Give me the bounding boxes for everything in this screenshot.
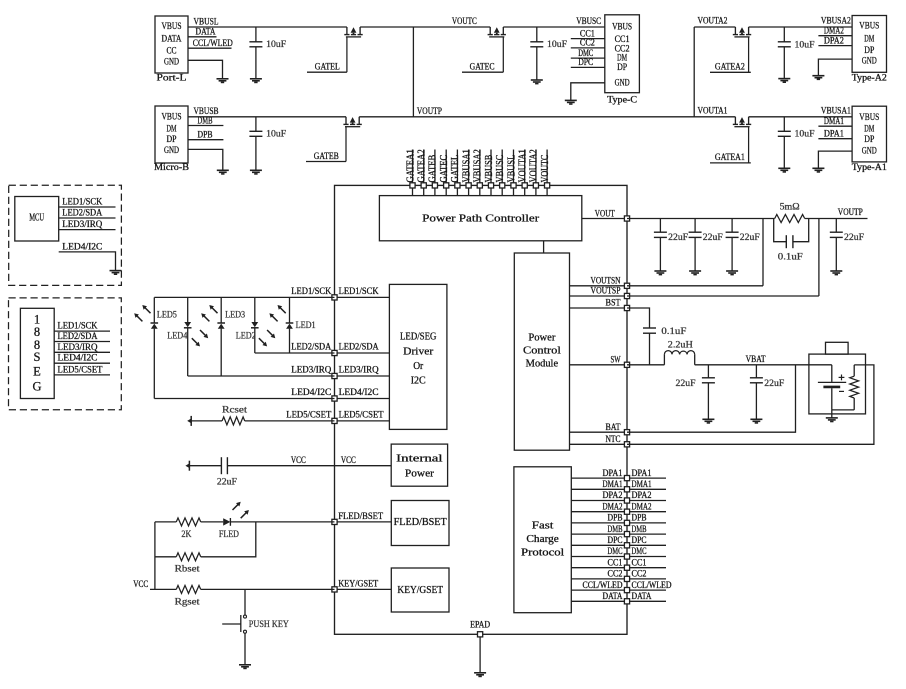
pin LED1/SCK <box>335 296 390 298</box>
net stub GATEC <box>462 71 503 73</box>
pin DATA <box>571 600 627 602</box>
svg-text:0.1uF: 0.1uF <box>778 252 803 262</box>
net stub DPC <box>571 66 605 68</box>
pin stub VBUSA1 <box>468 150 470 186</box>
svg-text:VBUSC: VBUSC <box>495 155 506 183</box>
wire NTC <box>627 365 874 444</box>
wire LED3/IRQ row <box>188 375 335 377</box>
pin DPB <box>571 522 627 524</box>
svg-text:Charge: Charge <box>526 534 559 545</box>
LED D5 LED5 <box>153 297 155 323</box>
ground Micro-B <box>217 169 229 171</box>
transistor Q3 GATEC PMOS <box>489 27 491 35</box>
ground C12 <box>702 418 714 420</box>
wire VBUSA1 <box>749 116 853 118</box>
svg-text:BAT: BAT <box>606 423 621 433</box>
capacitor C13 22uF <box>755 365 757 378</box>
pin LED3/IRQ <box>335 375 390 377</box>
pin DMA2 <box>571 511 627 513</box>
svg-text:LED2/SDA: LED2/SDA <box>62 209 102 219</box>
net stub DMC <box>571 57 605 59</box>
svg-text:VOUTSP: VOUTSP <box>591 287 621 297</box>
svg-text:DMB: DMB <box>632 525 647 535</box>
svg-text:VBUS: VBUS <box>612 22 632 32</box>
svg-text:GND: GND <box>615 78 630 88</box>
svg-text:VOUTC: VOUTC <box>540 155 551 183</box>
net stub CC2 <box>630 578 666 580</box>
svg-text:CC1: CC1 <box>632 558 647 568</box>
pin CC2 <box>571 578 627 580</box>
svg-text:DP: DP <box>864 46 874 56</box>
svg-text:VOUT: VOUT <box>595 209 615 219</box>
svg-text:DPA1: DPA1 <box>603 469 623 479</box>
block Power Path Controller <box>379 196 581 241</box>
svg-text:GATEL: GATEL <box>315 63 340 73</box>
block 1888SEG display <box>20 308 54 398</box>
resistor Rgset <box>150 588 176 590</box>
svg-text:VOUTSN: VOUTSN <box>591 276 621 286</box>
connector J3 Type-C <box>605 15 640 93</box>
battery pack outline <box>809 354 866 414</box>
wire Type-C GND <box>571 83 605 101</box>
svg-text:LED1/SCK: LED1/SCK <box>291 287 331 297</box>
capacitor C5 10uF <box>783 117 785 132</box>
svg-text:VBUS: VBUS <box>162 22 182 32</box>
svg-text:DMB: DMB <box>608 525 623 535</box>
svg-text:DM: DM <box>167 125 177 135</box>
MCU application dashed box <box>9 185 122 285</box>
capacitor C8 22uF <box>731 219 733 233</box>
svg-text:CCL/WLED: CCL/WLED <box>193 39 233 49</box>
pin stub GATEC <box>445 150 447 186</box>
svg-text:2K: 2K <box>181 530 191 540</box>
wire LED4/I2C row <box>154 398 334 400</box>
pin DMA1 <box>571 488 627 490</box>
pin VOUTSP <box>570 295 628 297</box>
svg-text:Rgset: Rgset <box>175 598 200 608</box>
connector J1 Port-L <box>155 16 188 73</box>
svg-text:DP: DP <box>864 135 874 145</box>
wire Port-L VBUS to Q1 <box>188 26 347 28</box>
svg-text:DMA1: DMA1 <box>632 480 652 490</box>
svg-text:Type-A1: Type-A1 <box>852 163 887 173</box>
svg-text:DPC: DPC <box>578 58 593 68</box>
pin FLED/BSET <box>335 521 392 523</box>
svg-text:CC1: CC1 <box>608 558 623 568</box>
capacitor C1 10uF <box>255 27 257 42</box>
svg-text:22uF: 22uF <box>217 478 237 488</box>
svg-text:LED1: LED1 <box>296 321 316 331</box>
ground C1 <box>250 78 262 80</box>
capacitor C9 0.1uF bypass <box>774 219 787 242</box>
svg-text:CCL/WLED: CCL/WLED <box>583 581 623 591</box>
svg-text:2.2uH: 2.2uH <box>668 341 693 351</box>
pin KEY/GSET <box>335 588 392 590</box>
svg-text:NTC: NTC <box>606 435 621 445</box>
net stub DATA <box>188 36 217 38</box>
svg-text:VBAT: VBAT <box>746 355 766 365</box>
svg-text:DPA1: DPA1 <box>824 130 844 140</box>
svg-text:DMA1: DMA1 <box>603 480 623 490</box>
wire VOUTA2 riser <box>693 27 695 117</box>
block MCU <box>15 197 59 242</box>
svg-text:LED3: LED3 <box>225 311 245 321</box>
svg-text:LED4: LED4 <box>167 332 187 342</box>
wire VBAT rail <box>695 364 832 366</box>
svg-text:Rbset: Rbset <box>175 565 200 575</box>
capacitor C2 10uF <box>255 117 257 132</box>
svg-text:GATEL: GATEL <box>450 155 461 183</box>
svg-text:VBUS: VBUS <box>162 113 182 123</box>
svg-text:10uF: 10uF <box>266 40 286 50</box>
net stub DMA1 <box>630 488 666 490</box>
svg-text:DPC: DPC <box>632 536 647 546</box>
svg-text:GATEC: GATEC <box>439 155 450 183</box>
svg-text:VCC: VCC <box>291 456 306 466</box>
ground C10 <box>830 270 842 272</box>
wire VBUSC <box>503 26 605 28</box>
wire LED top rail <box>154 296 334 298</box>
svg-text:DP: DP <box>617 63 627 73</box>
wire BAT <box>627 365 796 432</box>
thermistor RT1 NTC <box>853 365 855 376</box>
LED D5 arrows <box>144 307 151 314</box>
svg-text:Or: Or <box>413 361 424 372</box>
svg-text:10uF: 10uF <box>266 130 286 140</box>
IC U1 main controller outline <box>335 185 628 634</box>
ground C8 <box>726 270 738 272</box>
terminal Rcset left <box>190 416 192 426</box>
svg-text:VBUSC: VBUSC <box>576 17 601 27</box>
svg-text:LED/SEG: LED/SEG <box>400 331 437 342</box>
svg-text:MCU: MCU <box>29 213 45 224</box>
wire LED2/SDA row <box>255 352 335 354</box>
svg-text:Power Path Controller: Power Path Controller <box>422 214 540 225</box>
wire VOUTSN sense <box>627 285 763 287</box>
wire battery bottom <box>832 409 854 411</box>
svg-text:VBUSA1: VBUSA1 <box>821 106 851 116</box>
svg-text:FLED/BSET: FLED/BSET <box>394 517 448 528</box>
ground Type-A2 <box>812 75 824 77</box>
ground C2 <box>250 169 262 171</box>
block LED/SEG Driver Or I2C <box>389 284 447 429</box>
svg-text:DPB: DPB <box>198 131 213 141</box>
net stub DMC <box>630 556 666 558</box>
svg-text:DPB: DPB <box>632 514 647 524</box>
svg-text:VBUS: VBUS <box>859 22 879 32</box>
svg-text:LED1/SCK: LED1/SCK <box>339 287 379 297</box>
svg-text:VBUSA2: VBUSA2 <box>473 149 484 182</box>
svg-text:GND: GND <box>862 56 877 66</box>
pin LED2/SDA <box>335 352 390 354</box>
net stub DPA1 <box>630 477 666 479</box>
wire Micro-B GND <box>188 149 223 170</box>
svg-text:GATEC: GATEC <box>470 63 495 73</box>
svg-text:VCC: VCC <box>341 456 356 466</box>
switch SW1 PUSH KEY <box>244 589 246 615</box>
net stub SEG LED3/IRQ <box>54 351 110 353</box>
svg-text:DM: DM <box>864 35 874 45</box>
svg-text:22uF: 22uF <box>740 233 760 243</box>
svg-text:GATEA2: GATEA2 <box>715 63 745 73</box>
svg-text:Fast: Fast <box>532 521 554 532</box>
svg-text:CC2: CC2 <box>632 570 647 580</box>
net stub GATEL <box>307 71 347 73</box>
svg-text:VBUSL: VBUSL <box>194 17 219 27</box>
pin stub VBUSB <box>490 150 492 186</box>
svg-text:VBUS: VBUS <box>859 113 879 123</box>
pin stub VBUSC <box>501 150 503 186</box>
svg-text:DMB: DMB <box>198 116 213 126</box>
transistor Q1 GATEL PMOS <box>346 27 348 35</box>
net stub CCL/WLED <box>188 47 232 49</box>
svg-text:22uF: 22uF <box>668 233 688 243</box>
net stub DMB <box>630 533 666 535</box>
svg-text:EPAD: EPAD <box>470 621 490 631</box>
LED D2 LED2 <box>254 297 256 322</box>
svg-text:10uF: 10uF <box>795 130 815 140</box>
svg-text:DATA: DATA <box>162 35 182 45</box>
transistor Q5 GATEA1 PMOS <box>734 117 736 125</box>
LED D2 arrows <box>267 330 274 337</box>
net stub DPA2 <box>630 500 666 502</box>
capacitor C6 22uF <box>659 219 661 233</box>
svg-text:LED5/CSET: LED5/CSET <box>58 365 103 375</box>
svg-text:5mΩ: 5mΩ <box>780 202 800 212</box>
svg-text:KEY/GSET: KEY/GSET <box>397 585 443 596</box>
svg-text:FLED/BSET: FLED/BSET <box>338 512 383 522</box>
svg-text:LED3/IRQ: LED3/IRQ <box>291 366 331 376</box>
wire VOUT rail <box>627 218 775 220</box>
net stub SEG LED4/I2C <box>54 362 110 364</box>
svg-text:Module: Module <box>526 359 559 370</box>
block FLED/BSET <box>391 501 449 546</box>
svg-text:LED2/SDA: LED2/SDA <box>58 332 98 342</box>
svg-text:DMA1: DMA1 <box>824 117 844 127</box>
svg-text:Power: Power <box>405 468 435 479</box>
svg-text:GATEB: GATEB <box>314 152 339 162</box>
battery BT1 <box>831 365 833 382</box>
capacitor C7 22uF <box>694 219 696 233</box>
pin BST <box>570 307 628 309</box>
ground EPAD <box>474 672 486 674</box>
net stub DMB <box>188 125 223 127</box>
svg-text:LED3/IRQ: LED3/IRQ <box>339 366 379 376</box>
ground C6 <box>654 270 666 272</box>
svg-text:DATA: DATA <box>632 592 652 602</box>
ground C5 <box>778 167 790 169</box>
svg-text:DPA2: DPA2 <box>603 491 623 501</box>
pin stub GATEL <box>456 150 458 186</box>
net stub MCU LED1/SCK <box>59 206 116 208</box>
svg-text:GND: GND <box>862 146 877 156</box>
LED FLED arrows <box>233 503 240 510</box>
svg-text:22uF: 22uF <box>676 379 696 389</box>
terminal VCC left <box>188 461 190 471</box>
pin stub VOUTA2 <box>535 150 537 186</box>
svg-text:LED2/SDA: LED2/SDA <box>339 343 379 353</box>
capacitor C10 22uF <box>835 219 837 233</box>
LED D3 arrows <box>211 307 218 314</box>
wire VOUTSP sense <box>627 295 819 297</box>
svg-text:Rcset: Rcset <box>222 406 247 416</box>
svg-text:LED4/I2C: LED4/I2C <box>58 354 98 364</box>
pin BAT <box>570 431 628 433</box>
LED D4 LED4 <box>187 297 189 322</box>
wire junction VOUTC to VOUTP <box>412 27 414 117</box>
net stub GATEB <box>306 161 346 163</box>
svg-text:LED4/I2C: LED4/I2C <box>339 388 379 398</box>
capacitor C3 10uF <box>536 27 538 42</box>
svg-text:DPA2: DPA2 <box>824 36 844 46</box>
battery connector tab <box>826 342 849 354</box>
svg-text:10uF: 10uF <box>795 40 815 50</box>
svg-text:DMC: DMC <box>632 547 647 557</box>
svg-text:DMA2: DMA2 <box>632 502 652 512</box>
capacitor C12 22uF <box>707 365 709 378</box>
svg-text:VOUTA1: VOUTA1 <box>518 149 529 182</box>
resistor R1 5mOhm <box>775 215 805 223</box>
pin DPC <box>571 544 627 546</box>
net stub DPA1 <box>818 138 852 140</box>
svg-text:VOUTA1: VOUTA1 <box>698 107 728 117</box>
wire Micro-B VBUS to Q2 <box>188 116 346 118</box>
net stub SEG LED5/CSET <box>54 374 110 376</box>
svg-text:GATEA1: GATEA1 <box>715 153 745 163</box>
svg-text:GATEA2: GATEA2 <box>417 149 428 182</box>
net stub MCU LED2/SDA <box>59 217 116 219</box>
svg-text:DPA2: DPA2 <box>632 491 652 501</box>
svg-text:DM: DM <box>864 125 874 135</box>
block Fast Charge Protocol <box>514 467 571 613</box>
ground Type-C <box>565 99 577 101</box>
pin VOUT <box>582 218 627 220</box>
ground C13 <box>750 418 762 420</box>
pin VCC <box>335 465 392 467</box>
svg-text:VBUSA2: VBUSA2 <box>821 17 851 27</box>
svg-text:DMC: DMC <box>608 547 623 557</box>
ground Port-L <box>217 78 229 80</box>
svg-text:LED1/SCK: LED1/SCK <box>58 322 98 332</box>
net stub SEG LED1/SCK <box>54 330 110 332</box>
svg-text:GND: GND <box>164 146 179 156</box>
svg-text:22uF: 22uF <box>844 233 864 243</box>
pin stub VBUSL <box>513 150 515 186</box>
svg-text:E: E <box>33 365 41 379</box>
wire EPAD to ground <box>479 637 481 673</box>
resistor R2 2K <box>155 521 176 523</box>
svg-text:KEY/GSET: KEY/GSET <box>338 580 378 590</box>
svg-text:LED4/I2C: LED4/I2C <box>291 388 331 398</box>
svg-text:FLED: FLED <box>219 530 239 540</box>
capacitor C4 10uF <box>783 27 785 42</box>
svg-text:PUSH KEY: PUSH KEY <box>249 620 289 630</box>
wire VOUTP out <box>805 218 868 220</box>
svg-text:G: G <box>32 379 41 393</box>
net stub DATA <box>630 600 666 602</box>
svg-text:Micro-B: Micro-B <box>154 163 189 173</box>
net stub CC1 <box>630 567 666 569</box>
net stub DMA1 <box>818 125 852 127</box>
wire Port-L GND <box>188 60 223 79</box>
ground push key <box>239 664 251 666</box>
LED display dashed box <box>9 298 122 410</box>
net stub CC2 <box>571 47 605 49</box>
pin stub GATEA1 <box>412 150 414 186</box>
svg-text:CC2: CC2 <box>580 39 595 49</box>
svg-text:VOUTA2: VOUTA2 <box>698 17 728 27</box>
svg-text:VBUSA1: VBUSA1 <box>461 149 472 182</box>
svg-text:Protocol: Protocol <box>521 548 564 559</box>
svg-text:GATEA1: GATEA1 <box>405 149 416 182</box>
net stub GATEA2 <box>710 71 751 73</box>
svg-text:LED5: LED5 <box>157 311 177 321</box>
net stub MCU LED3/IRQ <box>59 229 116 231</box>
connector J5 Type-A1 <box>852 106 886 162</box>
inductor L1 2.2uH <box>663 354 665 364</box>
net stub DPB <box>188 139 223 141</box>
net stub DMA2 <box>630 511 666 513</box>
net stub DMA2 <box>818 35 852 37</box>
pin stub GATEB <box>434 150 436 186</box>
LED D4 arrows <box>200 330 207 337</box>
svg-text:VOUTP: VOUTP <box>838 208 863 218</box>
pin LED4/I2C <box>335 398 390 400</box>
resistor Rbset <box>155 556 176 558</box>
connector J4 Type-A2 <box>852 16 886 73</box>
capacitor C14 22uF VCC <box>189 465 221 467</box>
net stub CC1 <box>571 38 605 40</box>
svg-text:LED3/IRQ: LED3/IRQ <box>62 220 102 230</box>
net stub GATEA1 <box>710 162 751 164</box>
pin DMB <box>571 533 627 535</box>
LED FLED <box>201 521 224 523</box>
ground battery <box>826 417 838 419</box>
svg-text:Port-L: Port-L <box>157 74 187 84</box>
wire VOUTC rail <box>360 26 490 28</box>
block Internal Power <box>391 444 447 486</box>
svg-text:CC: CC <box>167 46 177 56</box>
resistor Rcset <box>191 420 222 422</box>
pin CCL/WLED <box>571 589 627 591</box>
svg-text:0.1uF: 0.1uF <box>661 327 686 337</box>
svg-text:Type-C: Type-C <box>607 96 637 106</box>
wire Type-A1 GND <box>818 151 852 168</box>
svg-text:Control: Control <box>523 346 561 357</box>
wire BST <box>627 308 650 328</box>
pin stub VOUTA1 <box>524 150 526 186</box>
pin LED5/CSET <box>335 420 390 422</box>
svg-text:S: S <box>34 350 41 364</box>
pin DPA1 <box>571 477 627 479</box>
ground C7 <box>689 270 701 272</box>
svg-text:10uF: 10uF <box>547 40 567 50</box>
pin stub VBUSA2 <box>479 150 481 186</box>
wire VBUSA2 <box>749 26 853 28</box>
svg-text:LED4/I2C: LED4/I2C <box>62 242 102 252</box>
svg-text:DPB: DPB <box>608 514 623 524</box>
connector J2 Micro-B <box>155 106 188 163</box>
wire push key to ground <box>244 633 246 665</box>
transistor Q4 GATEA2 PMOS <box>734 27 736 35</box>
svg-text:DPA1: DPA1 <box>632 469 652 479</box>
svg-text:VBUSB: VBUSB <box>484 155 495 183</box>
net stub DPB <box>630 522 666 524</box>
wire FLED branch vertical <box>154 522 156 590</box>
svg-text:CCL/WLED: CCL/WLED <box>632 581 672 591</box>
svg-text:VCC: VCC <box>133 580 148 590</box>
pin stub VOUTC <box>546 150 548 186</box>
